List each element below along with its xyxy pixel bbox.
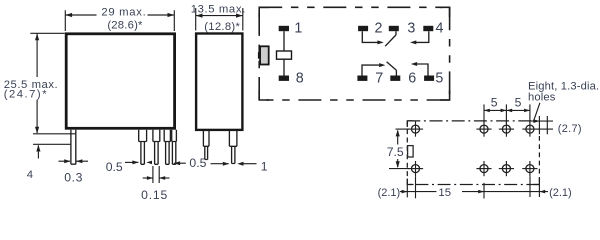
svg-text:4: 4	[27, 169, 33, 181]
svg-text:5: 5	[435, 71, 443, 87]
svg-text:15: 15	[438, 187, 451, 199]
svg-text:4: 4	[436, 21, 444, 37]
svg-text:8: 8	[296, 71, 304, 87]
svg-text:(2.1): (2.1)	[549, 187, 572, 199]
svg-text:5: 5	[515, 95, 522, 109]
svg-text:2: 2	[375, 21, 383, 37]
svg-text:0.15: 0.15	[141, 188, 168, 202]
svg-text:0.5: 0.5	[189, 156, 206, 170]
svg-text:0.3: 0.3	[64, 170, 83, 184]
svg-text:6: 6	[408, 71, 416, 87]
svg-text:(12.8)*: (12.8)*	[204, 21, 240, 33]
svg-text:(2.7): (2.7)	[558, 123, 582, 135]
svg-text:1: 1	[294, 21, 302, 37]
svg-text:29 max.: 29 max.	[101, 7, 146, 19]
svg-text:(28.6)*: (28.6)*	[107, 19, 143, 31]
svg-text:5: 5	[491, 95, 498, 109]
svg-text:(2.1): (2.1)	[378, 187, 401, 199]
svg-text:(24.7)*: (24.7)*	[4, 89, 48, 101]
svg-text:7.5: 7.5	[387, 145, 404, 159]
svg-text:1: 1	[261, 159, 268, 173]
svg-text:holes: holes	[528, 91, 556, 103]
svg-text:3: 3	[407, 21, 415, 37]
svg-text:0.5: 0.5	[106, 160, 123, 174]
svg-text:13.5 max.: 13.5 max.	[191, 4, 246, 16]
svg-text:7: 7	[375, 71, 383, 87]
